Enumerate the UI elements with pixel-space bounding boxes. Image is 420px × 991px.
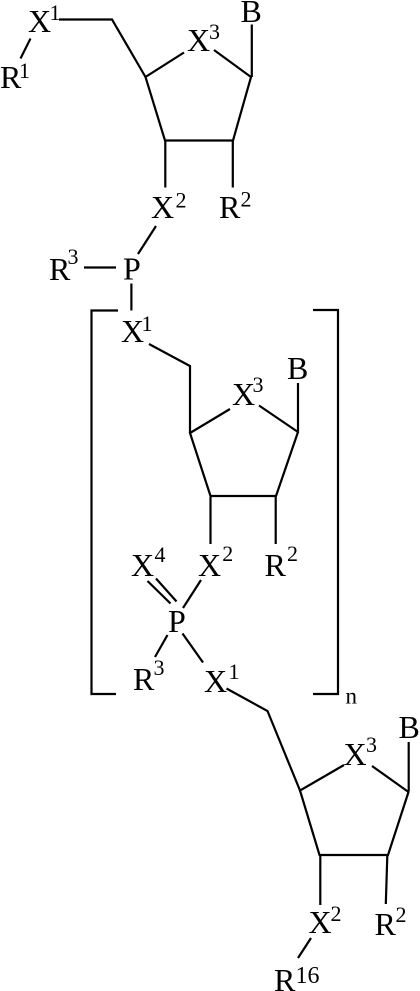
wire ring1 bottom-right to R2 bbox=[232, 141, 234, 188]
wire B bond (bracket unit) bbox=[297, 383, 299, 431]
wire ring1 bottom-left to X2 bbox=[164, 141, 166, 188]
svg-text:X: X bbox=[344, 736, 367, 772]
svg-text:3: 3 bbox=[253, 372, 264, 397]
wire X1 to C5 vertex (bracket unit) bbox=[149, 344, 190, 433]
svg-text:R: R bbox=[219, 189, 241, 225]
svg-text:P: P bbox=[123, 251, 141, 287]
wire X1 to C5 chain (bottom unit) bbox=[227, 689, 301, 791]
svg-text:1: 1 bbox=[50, 0, 61, 25]
svg-text:3: 3 bbox=[366, 732, 377, 757]
wire X2 to P (bracket unit) bbox=[183, 580, 201, 608]
svg-text:R: R bbox=[265, 547, 287, 583]
svg-text:B: B bbox=[241, 0, 262, 29]
wire P to R3 (bracket unit) bbox=[155, 635, 168, 657]
bracket right bbox=[313, 310, 338, 694]
bracket left bbox=[92, 311, 119, 695]
svg-text:B: B bbox=[399, 709, 420, 745]
wire P to X1 (bracket unit) bbox=[183, 634, 204, 663]
svg-text:1: 1 bbox=[229, 659, 240, 684]
svg-text:X: X bbox=[198, 547, 221, 583]
svg-text:R: R bbox=[375, 906, 397, 942]
svg-text:2: 2 bbox=[396, 902, 407, 927]
svg-text:R: R bbox=[274, 962, 296, 991]
svg-text:2: 2 bbox=[331, 901, 342, 926]
wire B bond (bottom unit) bbox=[408, 742, 410, 791]
wire ring2 bottom-left to X2 bbox=[209, 497, 211, 544]
wire X4=P double bond bbox=[148, 581, 171, 604]
svg-text:3: 3 bbox=[68, 244, 79, 269]
svg-text:X: X bbox=[28, 3, 51, 39]
svg-text:2: 2 bbox=[222, 541, 233, 566]
wire R3-P bond (top unit) bbox=[84, 266, 116, 268]
svg-text:B: B bbox=[287, 350, 308, 386]
svg-text:1: 1 bbox=[142, 311, 153, 336]
svg-text:X: X bbox=[151, 189, 174, 225]
svg-text:X: X bbox=[187, 22, 210, 58]
svg-text:R: R bbox=[133, 661, 155, 697]
svg-text:1: 1 bbox=[19, 58, 30, 83]
svg-text:2: 2 bbox=[287, 541, 298, 566]
svg-text:3: 3 bbox=[209, 19, 220, 44]
svg-text:16: 16 bbox=[296, 963, 320, 989]
ring 3 (bottom furanose) bbox=[300, 765, 409, 855]
svg-text:P: P bbox=[168, 603, 186, 639]
wire X2 to P (top unit) bbox=[138, 226, 156, 254]
ring 2 (bracket furanose) bbox=[190, 406, 298, 497]
svg-text:3: 3 bbox=[154, 655, 165, 680]
svg-text:4: 4 bbox=[155, 542, 166, 567]
wire X1-R1 (top unit) bbox=[21, 39, 31, 59]
wire ring2 bottom-right to R2 bbox=[275, 497, 277, 544]
ring 1 (top furanose) bbox=[146, 50, 252, 141]
wire X2 to R16 (bottom unit) bbox=[298, 938, 311, 958]
svg-text:n: n bbox=[346, 684, 358, 709]
svg-text:X: X bbox=[309, 904, 332, 940]
wire ring3 bottom-right to R2 bbox=[386, 856, 388, 904]
wire P down to bracket bbox=[130, 284, 132, 311]
wire ring3 bottom-left to X2 bbox=[319, 856, 321, 905]
svg-text:2: 2 bbox=[176, 188, 187, 213]
wire X1 to C5 vertex (top unit) bbox=[59, 20, 146, 78]
svg-text:2: 2 bbox=[241, 187, 252, 212]
wire B bond (top unit) bbox=[251, 25, 253, 78]
svg-text:X: X bbox=[131, 547, 154, 583]
svg-text:X: X bbox=[204, 663, 227, 699]
